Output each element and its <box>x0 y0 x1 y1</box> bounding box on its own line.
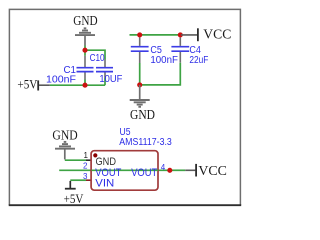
net label +5V left <box>17 78 37 92</box>
svg-text:GND: GND <box>130 107 155 122</box>
label C5 <box>150 45 162 56</box>
pin name VOUT right <box>131 167 157 179</box>
pin name GND <box>96 156 117 168</box>
svg-text:3: 3 <box>83 172 88 181</box>
value 100nF <box>46 74 76 85</box>
svg-text:10UF: 10UF <box>99 74 122 85</box>
svg-text:VCC: VCC <box>203 26 231 41</box>
pin number 2 <box>83 161 88 170</box>
junction node C5 bottom <box>137 82 142 87</box>
value 22uF <box>189 55 208 66</box>
wire C4 bottom to GND junction <box>140 63 181 85</box>
net label GND mid-right <box>130 107 155 122</box>
pin name VOUT left <box>95 167 121 179</box>
svg-text:+5V: +5V <box>64 192 84 206</box>
junction node C5 top <box>137 32 142 37</box>
label C4 <box>189 45 201 56</box>
net label VCC bottom <box>198 163 227 178</box>
wire pin1 GND <box>65 159 92 161</box>
wire pin4 to VCC <box>170 169 185 171</box>
capacitor C5 <box>131 38 149 85</box>
svg-text:1: 1 <box>84 151 89 160</box>
svg-text:AMS1117-3.3: AMS1117-3.3 <box>119 137 172 148</box>
svg-text:100nF: 100nF <box>46 74 76 85</box>
regulator U5 body <box>91 151 158 191</box>
svg-text:GND: GND <box>52 128 77 143</box>
wire pin2 VOUT long <box>59 169 170 171</box>
svg-text:100nF: 100nF <box>150 55 178 66</box>
ground symbol bottom-left <box>55 142 75 160</box>
svg-text:4: 4 <box>161 163 166 172</box>
svg-text:22uF: 22uF <box>189 55 208 66</box>
ground symbol top-left <box>75 28 95 45</box>
wire pin3 VIN <box>70 179 91 181</box>
capacitor C10 <box>96 60 113 86</box>
svg-text:GND: GND <box>73 13 97 28</box>
wire C1 top to C10 top <box>85 50 105 59</box>
label U5 <box>120 127 131 138</box>
value 10UF <box>99 74 122 85</box>
capacitor C4 <box>171 38 189 63</box>
svg-text:VOUT: VOUT <box>131 167 157 179</box>
net label VCC top <box>203 26 231 41</box>
junction node pin4 <box>167 168 172 173</box>
svg-text:2: 2 <box>83 161 88 170</box>
junction node C1 bottom <box>82 83 87 88</box>
svg-text:C10: C10 <box>90 53 105 64</box>
pin number 3 <box>83 172 88 181</box>
pin number 1 <box>84 151 89 160</box>
svg-text:VCC: VCC <box>198 163 227 178</box>
wire +5V rail <box>50 84 105 86</box>
svg-text:VIN: VIN <box>95 177 114 189</box>
power port +5V bottom <box>65 181 76 189</box>
pin number 4 <box>161 163 166 172</box>
power port +5V left <box>38 80 50 90</box>
net label +5V bottom <box>64 192 84 206</box>
junction node C1 top <box>82 48 87 53</box>
label C10 <box>90 53 105 64</box>
power port VCC bottom <box>185 164 196 177</box>
pin1 dot marker <box>93 153 97 157</box>
value AMS1117-3.3 <box>119 137 172 148</box>
wire VCC rail top <box>130 34 181 36</box>
pin name VIN <box>95 177 114 189</box>
label C1 <box>64 65 77 76</box>
power port VCC top <box>181 28 198 41</box>
net label GND top-left <box>73 13 97 28</box>
junction node C4 top <box>178 32 183 37</box>
net label GND bottom-left <box>52 128 77 143</box>
wire GND stem to junction <box>84 46 86 56</box>
value 100nF (C5) <box>150 55 178 66</box>
svg-text:GND: GND <box>96 156 117 168</box>
svg-text:+5V: +5V <box>17 78 37 92</box>
capacitor C1 <box>77 56 94 85</box>
wire pin2 VOUT inside body <box>92 169 159 171</box>
ground symbol mid-right <box>130 85 150 107</box>
